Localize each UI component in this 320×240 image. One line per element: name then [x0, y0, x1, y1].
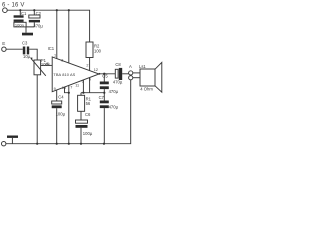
- svg-text:470µ: 470µ: [109, 89, 119, 94]
- svg-text:100: 100: [94, 48, 102, 53]
- svg-text:Ls1: Ls1: [139, 64, 146, 69]
- node rail C6: [80, 143, 82, 145]
- wire pin 3 supply: [68, 10, 70, 63]
- svg-text:8: 8: [46, 62, 48, 66]
- capacitor C6: [76, 112, 93, 144]
- speaker Ls1: [139, 62, 162, 92]
- svg-text:56: 56: [86, 101, 91, 106]
- svg-text:5: 5: [89, 78, 91, 82]
- ground terminal: [2, 142, 6, 146]
- node junction pin1: [56, 9, 58, 11]
- wire R2 to pin 2: [89, 58, 91, 71]
- svg-text:C7: C7: [99, 95, 105, 100]
- op-amp IC1 TBA 810 AS: [48, 46, 99, 91]
- wire pin 5 stub: [89, 78, 91, 93]
- node C5/C7 junction: [103, 92, 105, 94]
- node rail C7: [103, 143, 105, 145]
- capacitor C7: [99, 95, 119, 144]
- wire pin 9 to C4: [56, 90, 58, 101]
- svg-text:100µ: 100µ: [56, 111, 66, 116]
- wire speaker return to ground rail: [6, 80, 131, 144]
- input terminal: [2, 47, 6, 51]
- ground symbol (rail): [7, 136, 18, 138]
- wire input: [6, 48, 23, 50]
- wire pin 10 stub: [65, 87, 69, 93]
- svg-text:10µ: 10µ: [23, 54, 31, 59]
- wire pin 1 supply: [56, 10, 58, 59]
- wire cap commons: [20, 22, 34, 33]
- svg-text:100µ: 100µ: [83, 131, 93, 136]
- capacitor C4: [52, 94, 66, 143]
- svg-text:C3: C3: [22, 41, 28, 46]
- svg-text:C4: C4: [58, 94, 64, 99]
- svg-text:C6: C6: [85, 112, 91, 117]
- svg-text:A: A: [129, 64, 132, 69]
- node rail P1: [36, 143, 38, 145]
- svg-text:9: 9: [54, 87, 56, 91]
- svg-text:12: 12: [94, 68, 98, 72]
- svg-text:C8: C8: [115, 62, 121, 67]
- wire pot to ground rail: [36, 75, 38, 144]
- wire terminal to speaker -: [133, 77, 140, 79]
- svg-text:2: 2: [86, 63, 88, 67]
- svg-text:470µ: 470µ: [113, 80, 123, 85]
- ground (top caps): [22, 33, 33, 36]
- potentiometer P1: [30, 57, 51, 75]
- svg-text:1: 1: [54, 53, 56, 57]
- capacitor C1: [14, 10, 27, 27]
- wire R1 to C6: [80, 111, 82, 120]
- svg-text:10: 10: [62, 86, 66, 90]
- svg-text:C5: C5: [102, 74, 108, 79]
- svg-text:100n: 100n: [15, 22, 24, 27]
- node rail pin7: [68, 143, 70, 145]
- svg-text:4 Ohm: 4 Ohm: [140, 86, 153, 91]
- svg-text:IC1: IC1: [48, 46, 55, 51]
- wire C3 to pot: [29, 49, 37, 60]
- capacitor C5: [100, 74, 119, 101]
- svg-text:7: 7: [70, 85, 72, 89]
- wire pin 6 to R1: [81, 80, 83, 95]
- svg-text:11: 11: [75, 84, 79, 88]
- output terminal lower: [129, 76, 133, 80]
- svg-text:3: 3: [61, 58, 63, 62]
- node rail C4: [56, 143, 58, 145]
- svg-text:470µ: 470µ: [33, 23, 43, 28]
- wire terminal to speaker +: [133, 72, 140, 74]
- supply terminal: [3, 8, 8, 13]
- svg-text:470µ: 470µ: [109, 104, 119, 109]
- wire pin 7 to ground rail: [68, 86, 70, 144]
- capacitor C8: [113, 62, 123, 84]
- wire wiper to pin 8: [41, 64, 52, 66]
- wire bootstrap node: [81, 92, 104, 94]
- node junction C1: [19, 9, 21, 11]
- node junction pin3: [68, 9, 70, 11]
- resistor R2: [86, 42, 102, 58]
- wire output: [99, 73, 115, 75]
- wire top supply rail: [7, 10, 89, 42]
- node junction C2: [33, 9, 35, 11]
- resistor R1: [78, 95, 92, 111]
- node pin7/pin10 junction: [68, 92, 70, 94]
- svg-text:TBA 810 AS: TBA 810 AS: [53, 72, 75, 77]
- node output junction: [103, 73, 105, 75]
- capacitor C3: [22, 41, 31, 59]
- node output pin: [99, 73, 101, 75]
- node R1/bootstrap junction: [82, 92, 84, 94]
- capacitor C2: [29, 10, 44, 28]
- wire C8 to terminal: [122, 73, 129, 75]
- svg-text:E: E: [2, 41, 5, 46]
